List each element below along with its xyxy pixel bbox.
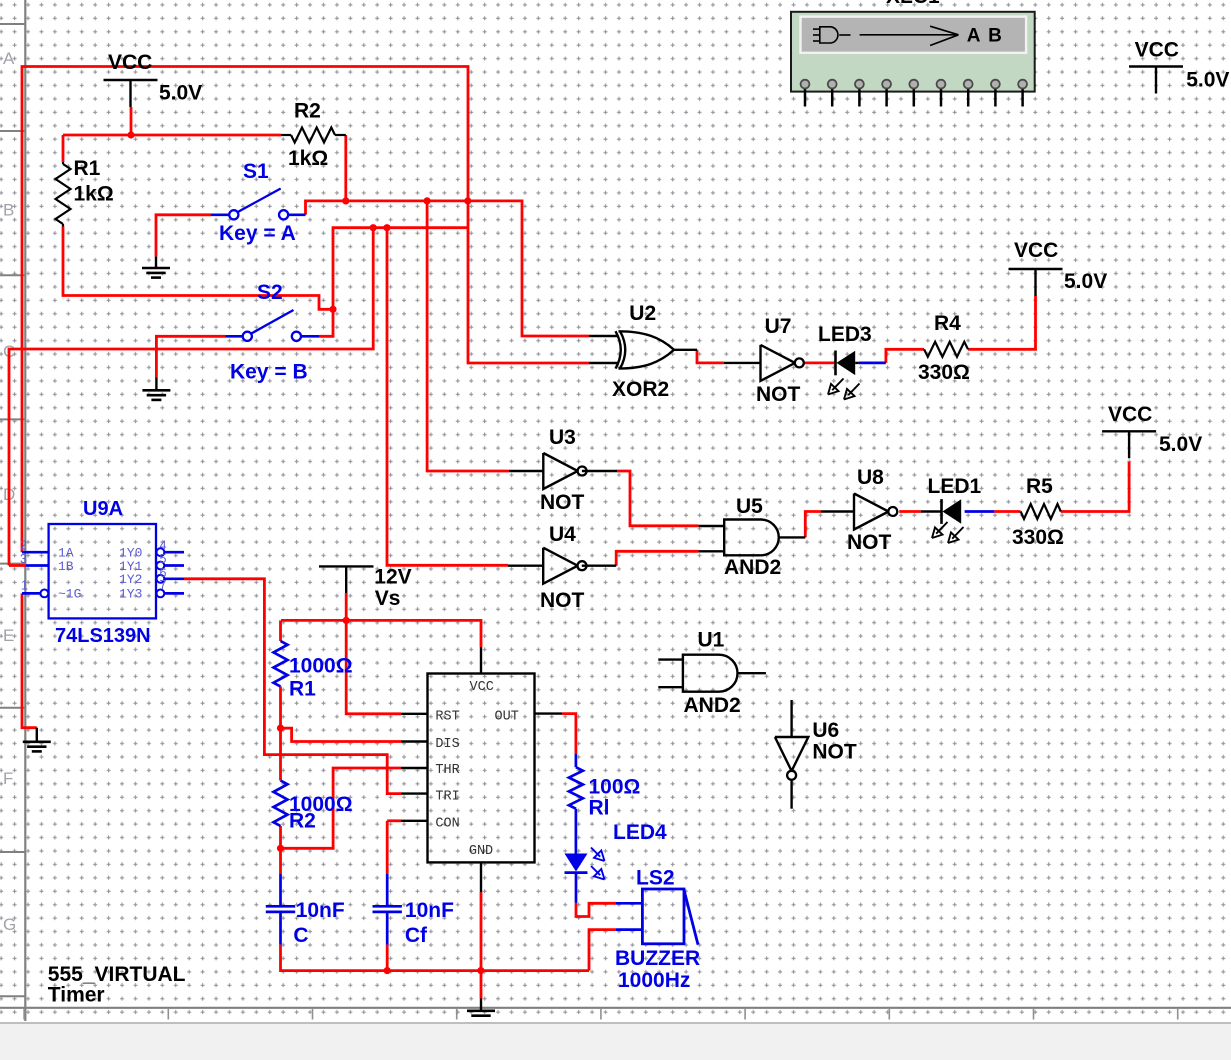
svg-text:4: 4: [160, 539, 167, 553]
svg-text:E: E: [3, 626, 14, 645]
svg-text:1Y3: 1Y3: [119, 587, 142, 602]
svg-text:5.0V: 5.0V: [1159, 433, 1202, 456]
svg-text:1kΩ: 1kΩ: [288, 147, 328, 170]
svg-text:TRI: TRI: [435, 790, 459, 805]
svg-text:1Y2: 1Y2: [119, 572, 142, 587]
svg-text:12V: 12V: [374, 566, 411, 589]
svg-text:XLC1: XLC1: [886, 0, 940, 8]
svg-text:5.0V: 5.0V: [1186, 69, 1229, 92]
svg-text:AND2: AND2: [724, 556, 781, 579]
svg-text:GND: GND: [469, 844, 493, 859]
svg-text:R4: R4: [934, 312, 961, 335]
svg-text:3: 3: [20, 552, 27, 566]
svg-text:U2: U2: [629, 302, 656, 325]
svg-text:U8: U8: [857, 466, 884, 489]
svg-text:RST: RST: [435, 709, 459, 724]
svg-text:VCC: VCC: [1135, 39, 1179, 62]
svg-text:1B: 1B: [58, 559, 74, 574]
svg-text:NOT: NOT: [756, 383, 801, 406]
svg-text:NOT: NOT: [812, 741, 857, 764]
svg-text:1: 1: [21, 579, 28, 593]
svg-text:U5: U5: [736, 495, 763, 518]
svg-text:330Ω: 330Ω: [918, 361, 970, 384]
svg-text:330Ω: 330Ω: [1012, 526, 1064, 549]
svg-text:Vs: Vs: [375, 587, 401, 610]
svg-text:DIS: DIS: [435, 737, 459, 752]
svg-text:LED4: LED4: [613, 821, 667, 844]
svg-text:U3: U3: [549, 426, 576, 449]
svg-text:VCC: VCC: [1108, 403, 1152, 426]
svg-text:LED1: LED1: [928, 475, 982, 498]
svg-text:A: A: [3, 49, 15, 68]
svg-text:C: C: [293, 924, 308, 947]
svg-text:BUZZER: BUZZER: [615, 947, 700, 970]
svg-text:7: 7: [160, 578, 167, 592]
svg-text:5.0V: 5.0V: [1064, 270, 1107, 293]
svg-text:R1: R1: [74, 157, 101, 180]
svg-text:10nF: 10nF: [296, 899, 345, 922]
svg-text:5: 5: [160, 552, 167, 566]
svg-text:1kΩ: 1kΩ: [74, 183, 114, 206]
svg-text:AND2: AND2: [684, 694, 741, 717]
svg-text:U6: U6: [812, 719, 839, 742]
svg-text:S1: S1: [243, 160, 269, 183]
svg-text:U9A: U9A: [83, 498, 123, 520]
svg-text:NOT: NOT: [540, 589, 585, 612]
svg-text:1000Hz: 1000Hz: [618, 969, 690, 992]
svg-text:VCC: VCC: [108, 51, 152, 74]
svg-text:5.0V: 5.0V: [159, 82, 202, 105]
svg-text:CON: CON: [435, 817, 459, 832]
svg-text:74LS139N: 74LS139N: [55, 625, 151, 647]
svg-text:U7: U7: [765, 315, 792, 338]
svg-text:Cf: Cf: [405, 924, 428, 947]
svg-text:10nF: 10nF: [405, 899, 454, 922]
svg-text:NOT: NOT: [540, 491, 585, 514]
svg-text:B: B: [3, 201, 14, 220]
svg-text:Key = A: Key = A: [219, 222, 296, 245]
svg-text:Timer: Timer: [48, 984, 105, 1007]
svg-text:100Ω: 100Ω: [589, 776, 641, 799]
svg-text:S2: S2: [257, 281, 283, 304]
svg-text:THR: THR: [435, 763, 459, 778]
svg-text:R1: R1: [289, 677, 316, 700]
svg-text:G: G: [3, 915, 16, 934]
svg-text:F: F: [3, 769, 13, 788]
svg-text:Key = B: Key = B: [230, 360, 308, 383]
svg-text:LS2: LS2: [636, 866, 675, 889]
svg-text:NOT: NOT: [847, 531, 892, 554]
svg-text:~1G: ~1G: [58, 587, 81, 602]
svg-text:2: 2: [20, 539, 27, 553]
svg-text:LED3: LED3: [818, 323, 872, 346]
svg-text:Rl: Rl: [589, 796, 610, 819]
svg-text:R5: R5: [1026, 475, 1053, 498]
svg-text:A B: A B: [967, 26, 1004, 47]
svg-text:U4: U4: [549, 523, 576, 546]
svg-text:U1: U1: [698, 629, 725, 652]
svg-text:VCC: VCC: [1014, 239, 1058, 262]
svg-text:R2: R2: [289, 810, 316, 833]
svg-text:R2: R2: [294, 100, 321, 123]
svg-text:1000Ω: 1000Ω: [289, 655, 353, 678]
svg-text:OUT: OUT: [495, 709, 519, 724]
svg-text:XOR2: XOR2: [612, 378, 669, 401]
svg-text:VCC: VCC: [470, 680, 494, 695]
